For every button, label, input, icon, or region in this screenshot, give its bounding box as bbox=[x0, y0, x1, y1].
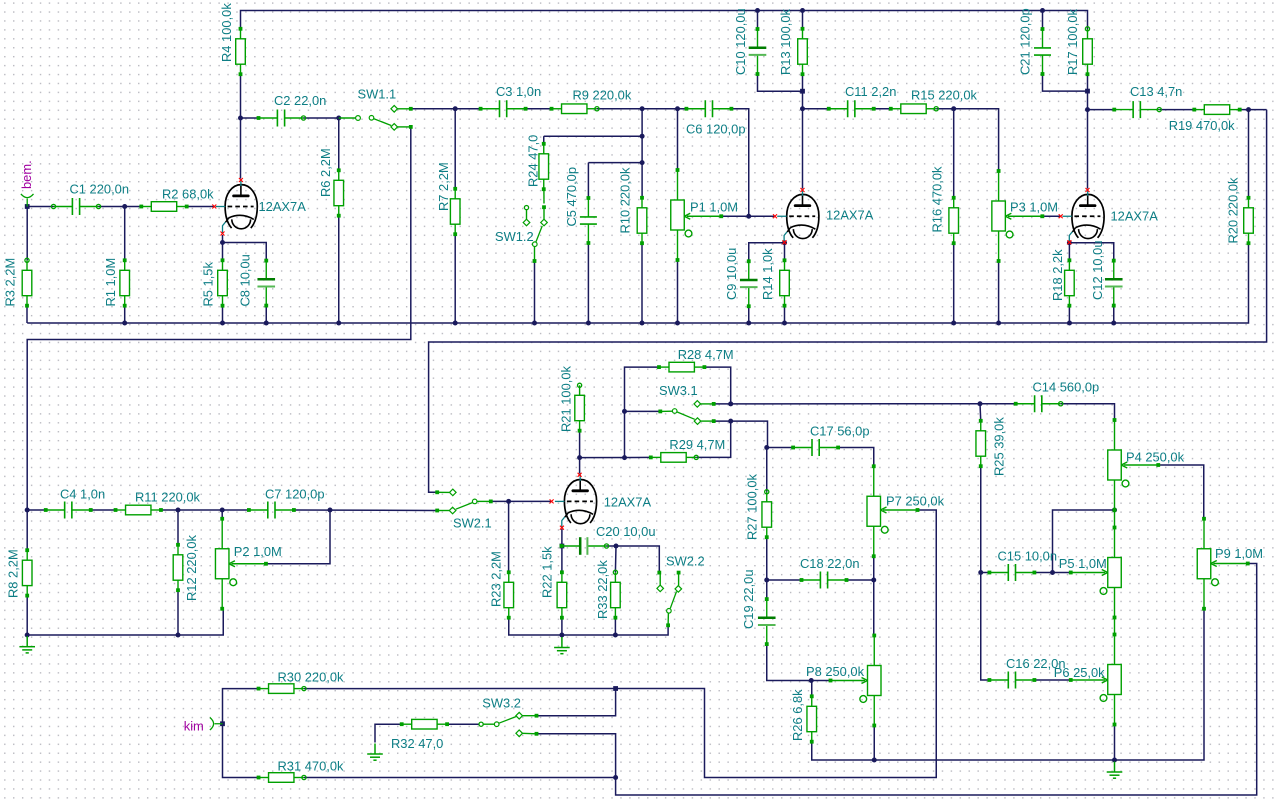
junction: C17 node bbox=[764, 445, 769, 450]
input pin bem bbox=[21, 194, 34, 207]
svg-text:C14 560,0p: C14 560,0p bbox=[1033, 380, 1100, 395]
junction: R16 tap bbox=[951, 106, 956, 111]
junction: anode4 node bbox=[577, 455, 582, 460]
junction: R20 tap bbox=[1246, 107, 1251, 112]
wire: P3 wiper to tube3 grid bbox=[1043, 215, 1061, 217]
pin marker tube2 cathode bbox=[783, 240, 787, 244]
resistor R19 bbox=[1194, 105, 1239, 115]
wire: R7 to common bus bbox=[454, 234, 456, 323]
resistor R13 bbox=[798, 29, 808, 74]
potentiometer P9 bbox=[1197, 519, 1248, 609]
wire: R14 to common bus bbox=[784, 306, 786, 323]
resistor R32 bbox=[402, 719, 447, 729]
wire: R4 to tube1 anode bbox=[240, 74, 242, 179]
svg-text:C17 56,0p: C17 56,0p bbox=[810, 424, 870, 439]
junction: R7 tap bbox=[453, 106, 458, 111]
potentiometer P6 bbox=[1071, 635, 1122, 725]
svg-text:R24 47,0: R24 47,0 bbox=[526, 135, 541, 187]
junction: R17/C21 node bbox=[1085, 89, 1090, 94]
resistor R29 bbox=[651, 453, 696, 463]
junction: common bus bbox=[782, 321, 787, 326]
junction: R10 bus top bbox=[640, 106, 645, 111]
wire: kim to R30 bbox=[223, 689, 259, 724]
resistor R21 bbox=[575, 385, 585, 430]
switch SW2.2 (changeover) bbox=[657, 571, 661, 575]
junction: bem input node bbox=[25, 204, 30, 209]
svg-text:R11 220,0k: R11 220,0k bbox=[135, 490, 201, 505]
wire: node to R1 bbox=[124, 207, 126, 261]
capacitor C10 bbox=[757, 29, 759, 48]
wire: R16 to common bus bbox=[953, 243, 955, 323]
wire: C17 to P7 bbox=[838, 448, 874, 467]
switch SW1.1 (changeover) bbox=[339, 117, 356, 119]
resistor R25 bbox=[976, 421, 986, 466]
wire: P1 to common bus bbox=[677, 259, 679, 323]
wire: kim to R31 bbox=[223, 724, 259, 778]
wire: cathode node to C8 bbox=[223, 243, 267, 261]
wire: to SW3.1 pole bbox=[625, 410, 660, 412]
wire: node to R33 bbox=[614, 546, 617, 572]
ground (P6 bottom) bbox=[1107, 762, 1123, 779]
capacitor C13 bbox=[1114, 109, 1133, 111]
wire: C3 to R9 bbox=[526, 108, 552, 110]
wire: C10 to bus bbox=[757, 11, 759, 30]
wire: C9 to common bus bbox=[748, 306, 750, 323]
wire: row2 node to C4 bbox=[27, 509, 46, 511]
wire: bem node to R3 bbox=[26, 207, 28, 261]
svg-text:P1 1,0M: P1 1,0M bbox=[690, 200, 738, 215]
resistor R17 bbox=[1083, 29, 1093, 74]
wire: P3 to common bus bbox=[998, 261, 1000, 323]
resistor R33 bbox=[611, 572, 621, 617]
wire: C15 to P5 wiper bbox=[1034, 572, 1069, 574]
svg-text:SW1.1: SW1.1 bbox=[358, 87, 397, 102]
svg-text:P5 1,0M: P5 1,0M bbox=[1059, 556, 1107, 571]
junction: R1 tap bbox=[122, 204, 127, 209]
resistor R15 bbox=[891, 104, 936, 114]
capacitor C9 bbox=[748, 261, 750, 280]
svg-text:12AX7A: 12AX7A bbox=[826, 208, 874, 223]
junction: R13/C10 node bbox=[800, 89, 805, 94]
input pin kim bbox=[210, 717, 223, 730]
junction: SW3.2 upper branch bbox=[613, 686, 618, 691]
svg-text:R26 6,8k: R26 6,8k bbox=[790, 689, 805, 741]
svg-text:R32 47,0: R32 47,0 bbox=[391, 736, 443, 751]
switch SW3.1 (changeover) bbox=[658, 410, 662, 414]
resistor R16 bbox=[949, 198, 959, 243]
svg-text:P8 250,0k: P8 250,0k bbox=[806, 664, 865, 679]
junction: R28 branch bbox=[622, 455, 627, 460]
resistor R7 bbox=[450, 189, 460, 234]
wire: tube3 cathode to R18 bbox=[1068, 244, 1070, 261]
svg-text:R27 100,0k: R27 100,0k bbox=[745, 474, 760, 540]
wire: branch down to SW3.2 upper throw bbox=[537, 689, 616, 716]
svg-text:R21 100,0k: R21 100,0k bbox=[559, 366, 574, 432]
junction: SW3.1 pole tap bbox=[622, 409, 627, 414]
wire: P7 bottom to P8 top bbox=[873, 555, 875, 636]
resistor R11 bbox=[116, 505, 161, 515]
junction: R23 tap bbox=[506, 499, 511, 504]
svg-text:C2 22,0n: C2 22,0n bbox=[274, 93, 326, 108]
wire: node to R20 bbox=[1248, 110, 1250, 198]
junction: R12 bottom bbox=[176, 633, 181, 638]
capacitor C3 bbox=[481, 108, 500, 110]
junction: bottom row bbox=[872, 758, 877, 763]
wire: R13 to tube2 anode bbox=[802, 74, 804, 189]
wire: C1 to R2 bbox=[99, 206, 142, 208]
svg-text:R2 68,0k: R2 68,0k bbox=[162, 187, 214, 202]
capacitor C1 bbox=[54, 206, 73, 208]
switch SW2.1 (changeover) bbox=[435, 490, 439, 494]
capacitor C21 bbox=[1042, 29, 1044, 48]
svg-text:R7 2,2M: R7 2,2M bbox=[436, 162, 451, 211]
resistor R10 bbox=[637, 198, 647, 243]
resistor R18 bbox=[1065, 260, 1075, 305]
wire: node to R26 bbox=[811, 681, 813, 697]
junction bbox=[800, 8, 805, 13]
pin marker tube1 cathode bbox=[221, 232, 225, 236]
junction: ground corner bbox=[25, 633, 30, 638]
svg-text:R23 2,2M: R23 2,2M bbox=[489, 551, 504, 607]
junction: common bus bbox=[122, 321, 127, 326]
junction: tube2 grid node bbox=[746, 214, 751, 219]
svg-text:R14 1,0k: R14 1,0k bbox=[760, 248, 775, 300]
svg-text:R8 2,2M: R8 2,2M bbox=[6, 549, 21, 598]
pin marker tube4 cathode bbox=[560, 526, 564, 530]
wire: node to C18 bbox=[767, 579, 802, 581]
svg-text:P4 250,0k: P4 250,0k bbox=[1126, 450, 1185, 465]
svg-text:C9 10,0u: C9 10,0u bbox=[724, 248, 739, 300]
svg-text:C3 1,0n: C3 1,0n bbox=[496, 84, 541, 99]
capacitor C18 bbox=[802, 579, 821, 581]
capacitor C11 bbox=[829, 108, 848, 110]
wire: R32 to SW3.2 pole bbox=[447, 723, 479, 725]
junction: C5 tap bbox=[640, 160, 645, 165]
resistor R27 bbox=[762, 492, 772, 537]
wire: corner down to C5 bbox=[587, 163, 589, 198]
wire: R11 to C7 bbox=[161, 509, 249, 511]
svg-text:R15 220,0k: R15 220,0k bbox=[911, 88, 977, 103]
wire: node to C15 bbox=[981, 572, 990, 574]
junction: P6 ground node bbox=[1112, 758, 1117, 763]
svg-text:R6 2,2M: R6 2,2M bbox=[318, 148, 333, 197]
potentiometer P1 bbox=[671, 170, 722, 260]
wire: R31 to bottom node bbox=[304, 777, 616, 779]
wire: SW3.1 upper throw to C14 bbox=[714, 403, 1016, 405]
wire: R1 to common bus bbox=[124, 306, 126, 323]
junction: R12 tap bbox=[176, 508, 181, 513]
junction: common bus bbox=[675, 321, 680, 326]
svg-text:P7 250,0k: P7 250,0k bbox=[886, 494, 945, 509]
wire: C12 to common bus bbox=[1113, 306, 1115, 323]
pin marker tube3 grid bbox=[1059, 214, 1063, 218]
junction: row2 input node bbox=[25, 508, 30, 513]
wire: anode4 node to R29 bbox=[580, 456, 651, 458]
wire: feedback line to SW2.1 bbox=[429, 110, 1267, 493]
wire: node to R23 bbox=[508, 501, 510, 572]
capacitor C2 bbox=[259, 117, 278, 119]
ground (tube4 cathode) bbox=[554, 637, 570, 654]
svg-text:12AX7A: 12AX7A bbox=[1111, 209, 1159, 224]
wire: SW1.1 lower throw loop to input of row2 bbox=[27, 127, 412, 510]
svg-text:P3 1,0M: P3 1,0M bbox=[1010, 200, 1058, 215]
junction: common bus bbox=[951, 321, 956, 326]
svg-text:C5 470,0p: C5 470,0p bbox=[564, 167, 579, 227]
wire: C5 to common bus bbox=[587, 243, 589, 323]
resistor R12 bbox=[173, 545, 183, 590]
svg-text:R29 4,7M: R29 4,7M bbox=[669, 437, 725, 452]
wire: R5 to common bus bbox=[222, 306, 224, 323]
junction: common bus bbox=[640, 321, 645, 326]
potentiometer P4 bbox=[1108, 420, 1159, 510]
junction: R24 tap bbox=[640, 134, 645, 139]
svg-text:R18 2,2k: R18 2,2k bbox=[1050, 249, 1065, 301]
wire: node to R27 bbox=[766, 448, 768, 492]
wire: node to R6 bbox=[338, 118, 340, 170]
wire: C16 to P6 wiper bbox=[1034, 679, 1070, 681]
junction: common bus bbox=[264, 321, 269, 326]
wire: C2 to SW1.1 pole node bbox=[304, 117, 339, 119]
wire: bus to R10 bbox=[641, 163, 643, 198]
junction: common bus bbox=[532, 321, 537, 326]
pin marker tube2 grid bbox=[773, 214, 777, 218]
wire: node to P1 bbox=[677, 109, 679, 171]
wire: node to P8 wiper bbox=[811, 680, 829, 682]
svg-text:C10 120,0u: C10 120,0u bbox=[733, 8, 748, 75]
wire: C18 to P7 bottom node bbox=[847, 579, 874, 581]
junction: P4 bottom branch bbox=[1050, 570, 1055, 575]
resistor R9 bbox=[552, 104, 597, 114]
wire: SW3.2 lower throw to bottom node bbox=[537, 734, 616, 778]
svg-text:C8 10,0u: C8 10,0u bbox=[238, 254, 253, 306]
junction: P4/P5 node bbox=[1112, 508, 1117, 513]
junction: P2 wiper return bbox=[328, 508, 333, 513]
junction: cathode node bbox=[220, 240, 225, 245]
wire: R24 to SW1.2 bbox=[543, 189, 545, 203]
capacitor C19 bbox=[766, 599, 768, 618]
svg-text:R30 220,0k: R30 220,0k bbox=[278, 670, 344, 685]
wire: R19 to feedback corner bbox=[1240, 109, 1267, 111]
junction: bottom return node bbox=[613, 775, 618, 780]
wire: cathode2 to C9 bbox=[749, 243, 785, 262]
wire: C7 to SW2.1 bbox=[294, 509, 436, 512]
resistor R28 bbox=[659, 362, 704, 372]
resistor R5 bbox=[218, 260, 228, 305]
wire: C11 to R15 bbox=[874, 108, 891, 110]
junction bbox=[1040, 8, 1045, 13]
wire: R17 to tube3 anode bbox=[1087, 74, 1089, 189]
potentiometer P7 bbox=[867, 466, 918, 556]
switch SW1.2 (changeover) bbox=[524, 206, 528, 210]
wire: R21 to tube4 anode bbox=[579, 431, 581, 474]
wire: R24 top stub bbox=[543, 136, 545, 144]
junction: C15 node bbox=[978, 570, 983, 575]
wire: P4 bottom to P5 top bbox=[1114, 510, 1116, 528]
wire: grid node to tube2 grid bbox=[749, 215, 774, 217]
svg-text:R12 220,0k: R12 220,0k bbox=[184, 535, 199, 601]
wire: P8 to bottom row bbox=[873, 724, 875, 760]
capacitor C15 bbox=[989, 572, 1008, 574]
svg-text:C12 10,0u: C12 10,0u bbox=[1090, 241, 1105, 301]
svg-text:12AX7A: 12AX7A bbox=[259, 199, 307, 214]
pin marker tube1 anode bbox=[239, 178, 243, 182]
wire: R22 to gnd row bbox=[561, 618, 563, 635]
wire: SW3.1 lower throw to C17 node bbox=[714, 421, 768, 447]
junction: gnd row R33 bbox=[613, 633, 618, 638]
svg-text:SW3.2: SW3.2 bbox=[482, 696, 521, 711]
svg-text:R3 2,2M: R3 2,2M bbox=[3, 258, 18, 307]
wire: branch to P4 bottom bbox=[1053, 510, 1115, 573]
svg-text:P9 1,0M: P9 1,0M bbox=[1215, 546, 1263, 561]
junction: R33 tap bbox=[614, 544, 619, 549]
junction: upper throw node bbox=[728, 401, 733, 406]
svg-text:SW3.1: SW3.1 bbox=[659, 383, 698, 398]
wire: R15 to P3 bbox=[936, 109, 998, 172]
resistor R14 bbox=[780, 260, 790, 305]
wire: R28 to SW3.1 upper throw bbox=[704, 367, 730, 404]
junction: P2 tap bbox=[220, 508, 225, 513]
svg-text:C7 120,0p: C7 120,0p bbox=[265, 487, 325, 502]
svg-text:C13 4,7n: C13 4,7n bbox=[1130, 84, 1182, 99]
wire: SW1.2 pole to common bus bbox=[534, 261, 536, 323]
junction: R25 tap bbox=[978, 401, 983, 406]
junction: common bus bbox=[220, 321, 225, 326]
junction: common bus bbox=[586, 321, 591, 326]
wire: R25 to C15 bbox=[980, 466, 982, 572]
wire: R27 to C18 node bbox=[766, 537, 768, 580]
svg-text:R20 220,0k: R20 220,0k bbox=[1226, 177, 1241, 243]
svg-text:R16 470,0k: R16 470,0k bbox=[930, 166, 945, 232]
svg-text:R33 22,0k: R33 22,0k bbox=[595, 560, 610, 619]
wire: R9 to C6 bbox=[597, 108, 686, 110]
junction: SW1.1 pole node bbox=[336, 116, 341, 121]
capacitor C17 bbox=[793, 447, 812, 449]
wire: R10 bus bbox=[641, 109, 643, 163]
wire: node to C2 bbox=[241, 117, 259, 119]
wire: R6 to common bus bbox=[338, 216, 340, 323]
pin marker tube3 cathode bbox=[1067, 240, 1071, 244]
junction: common bus bbox=[336, 321, 341, 326]
junction: common bus bbox=[996, 321, 1001, 326]
wire: SW1.1 throw to C3 bbox=[412, 108, 480, 110]
junction: kim input node bbox=[220, 721, 225, 726]
svg-text:C21 120,0p: C21 120,0p bbox=[1018, 8, 1033, 75]
svg-text:C15 10,0n: C15 10,0n bbox=[998, 549, 1058, 564]
resistor R6 bbox=[334, 170, 344, 215]
pin marker tube2 anode bbox=[801, 188, 805, 192]
svg-text:R22 1,5k: R22 1,5k bbox=[540, 546, 555, 598]
svg-text:R9 220,0k: R9 220,0k bbox=[573, 88, 632, 103]
wire: C5 corner to bus bbox=[588, 162, 642, 164]
pin marker tube4 anode bbox=[578, 473, 582, 477]
ground (R32) bbox=[367, 744, 383, 761]
svg-text:R19 470,0k: R19 470,0k bbox=[1169, 118, 1235, 133]
wire: node to C11 bbox=[803, 108, 829, 110]
wire: node down to R8 bbox=[26, 510, 28, 550]
wire: P9 wiper bottom return bbox=[616, 564, 1257, 796]
svg-text:R10 220,0k: R10 220,0k bbox=[618, 167, 633, 233]
svg-text:R1 1,0M: R1 1,0M bbox=[103, 258, 118, 307]
resistor R4 bbox=[236, 29, 246, 74]
resistor R26 bbox=[807, 696, 817, 741]
resistor R1 bbox=[120, 260, 130, 305]
triode 12AX7A (tube 1) bbox=[225, 185, 257, 229]
resistor R23 bbox=[504, 572, 514, 617]
junction: common bus bbox=[453, 321, 458, 326]
potentiometer P3 bbox=[992, 171, 1043, 261]
svg-text:C4 1,0n: C4 1,0n bbox=[60, 487, 105, 502]
wire: C6 down to grid node bbox=[731, 109, 748, 217]
svg-text:P6 25,0k: P6 25,0k bbox=[1054, 665, 1105, 680]
svg-text:R13 100,0k: R13 100,0k bbox=[778, 9, 793, 75]
triode 12AX7A (tube 2) bbox=[787, 194, 819, 238]
capacitor C20 bbox=[562, 545, 581, 547]
junction: P1 tap bbox=[675, 106, 680, 111]
svg-text:C19 22,0u: C19 22,0u bbox=[741, 570, 756, 630]
potentiometer P8 bbox=[831, 636, 882, 726]
wire: node to R25 bbox=[979, 404, 982, 421]
resistor R8 bbox=[22, 550, 32, 595]
wire: R18 to common bus bbox=[1068, 306, 1070, 323]
capacitor C6 bbox=[686, 108, 705, 110]
wire: node to P2 bbox=[221, 510, 223, 520]
wire: node to C13 bbox=[1088, 109, 1115, 111]
wire: branch up to R28 bbox=[625, 367, 660, 458]
svg-text:R4 100,0k: R4 100,0k bbox=[219, 3, 234, 62]
capacitor C12 bbox=[1113, 261, 1115, 280]
wire: tube1 cathode to R5 bbox=[222, 235, 224, 260]
wire: R2 to tube1 grid bbox=[187, 206, 214, 208]
junction: common bus bbox=[746, 321, 751, 326]
wire: R29 to SW3.1 lower throw bbox=[696, 421, 731, 457]
wire: R13 to bus bbox=[802, 11, 804, 30]
wire: tube2 cathode to R14 bbox=[784, 244, 786, 261]
svg-text:kim: kim bbox=[184, 719, 204, 734]
capacitor C8 bbox=[265, 261, 267, 280]
wire: SW2.1 pole to tube4 grid bbox=[492, 500, 551, 502]
junction: P7/P8 node bbox=[871, 578, 876, 583]
wire: cathode gnd row to SW2.2 pole bbox=[562, 625, 668, 635]
wire: P2 wiper return bbox=[266, 510, 330, 564]
junction: lower throw node bbox=[728, 419, 733, 424]
svg-text:P2 1,0M: P2 1,0M bbox=[234, 544, 282, 559]
wire: C4 to R11 bbox=[91, 509, 116, 511]
wire: tube4 cathode to R22 bbox=[561, 529, 563, 572]
wire: common bus row1 up to R20 bbox=[27, 243, 1248, 323]
wire: C10 to R13 node bbox=[758, 74, 803, 91]
wire: R10 to common bus bbox=[641, 243, 643, 323]
wire: node to C17 bbox=[767, 447, 793, 449]
svg-text:R17 100,0k: R17 100,0k bbox=[1065, 9, 1080, 75]
resistor R2 bbox=[141, 202, 186, 212]
wire: C14 to P4 bbox=[1061, 404, 1115, 422]
svg-text:R5 1,5k: R5 1,5k bbox=[201, 262, 216, 307]
junction: common bus bbox=[1111, 321, 1116, 326]
wire: P7 wiper return loop bbox=[616, 510, 937, 778]
junction: anode/C2 node bbox=[238, 116, 243, 121]
pin marker tube1 grid bbox=[212, 205, 216, 209]
junction: anode/C11 node bbox=[800, 106, 805, 111]
svg-text:R28 4,7M: R28 4,7M bbox=[678, 347, 734, 362]
ground (row2 left) bbox=[19, 636, 35, 653]
wire: R33 to gnd row bbox=[614, 618, 616, 635]
switch SW3.2 (changeover) bbox=[479, 722, 483, 726]
triode 12AX7A (tube 3) bbox=[1072, 194, 1104, 238]
svg-text:bem.: bem. bbox=[19, 160, 34, 189]
junction: gnd row R22 bbox=[559, 633, 564, 638]
svg-text:C6 120,0p: C6 120,0p bbox=[686, 122, 746, 137]
junction: P8 wiper node bbox=[809, 678, 814, 683]
